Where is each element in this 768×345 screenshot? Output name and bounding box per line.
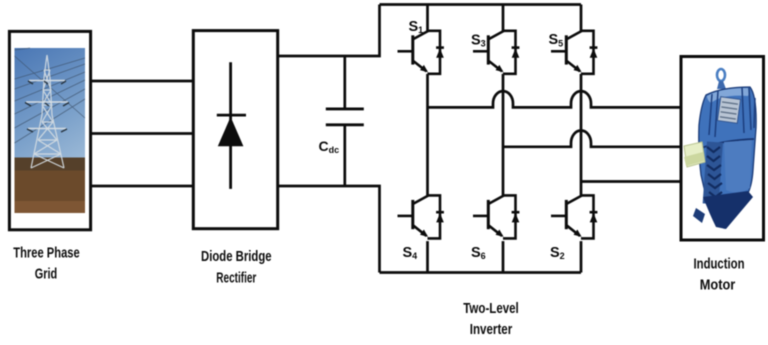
inverter top rail [380,3,582,6]
svg-text:Grid: Grid [35,265,58,282]
motor eyebolt [717,69,725,81]
wire: grid phase b to rectifier [91,132,194,135]
wire: grid phase a to rectifier [91,80,194,83]
svg-text:Motor: Motor [700,276,736,293]
motor foot shadow [693,208,705,223]
transistor S3 (IGBT + antiparallel diode) [473,31,519,74]
diode D inside rectifier [217,62,246,189]
svg-text:S1: S1 [409,19,424,35]
wire: phase C output [581,180,681,183]
motor chevron rib column [703,142,723,205]
svg-text:S4: S4 [403,245,418,261]
three phase grid box [9,31,90,229]
grid photo: sky [15,48,86,213]
svg-text:Two-Level: Two-Level [463,300,519,317]
svg-text:S6: S6 [471,245,486,261]
induction motor box [681,57,764,241]
motor cooling fins [709,87,755,137]
diode bridge rectifier box [193,31,277,229]
svg-text:S3: S3 [471,32,486,48]
motor right side panel [724,140,752,193]
grid photo: power lines [15,48,86,143]
svg-text:S2: S2 [550,245,565,261]
svg-text:Induction: Induction [694,255,745,272]
wire: DC- rectifier to inverter [278,186,380,273]
capacitor Cdc [326,56,364,186]
leg 1 wire segments [426,5,429,273]
svg-text:Cdc: Cdc [319,138,340,155]
motor nameplate [717,97,740,124]
leg 3 wire segments [580,5,583,273]
svg-text:Inverter: Inverter [470,321,513,338]
motor seam line [701,139,754,148]
grid photo: insulators [25,81,69,132]
motor dark base [703,191,753,229]
motor shaft [684,142,705,167]
wire: DC+ rectifier to inverter [278,5,380,57]
wire: grid phase c to rectifier [91,185,194,188]
inverter bottom rail [380,271,582,274]
svg-text:Three Phase: Three Phase [13,244,80,261]
wire: phase A output with hops over legs 2 and 3 [428,91,682,107]
motor photo [684,69,756,229]
transistor S5 (IGBT + antiparallel diode) [551,31,597,74]
motor body [699,87,756,228]
wire: phase B output with hop over leg 3 [503,131,681,147]
svg-text:Diode Bridge: Diode Bridge [201,248,272,265]
svg-text:Rectifier: Rectifier [216,270,256,287]
transistor S2 (IGBT + antiparallel diode) [551,195,597,238]
motor top highlight [707,88,749,103]
grid photo: ground [15,158,86,214]
grid photo: crossarms [26,81,68,129]
svg-text:S5: S5 [549,32,564,48]
leg 2 wire segments [502,5,505,273]
grid photo: lattice tower [31,55,64,168]
transistor S1 (IGBT + antiparallel diode) [398,31,444,74]
transistor S4 (IGBT + antiparallel diode) [398,195,444,238]
transistor S6 (IGBT + antiparallel diode) [473,195,519,238]
